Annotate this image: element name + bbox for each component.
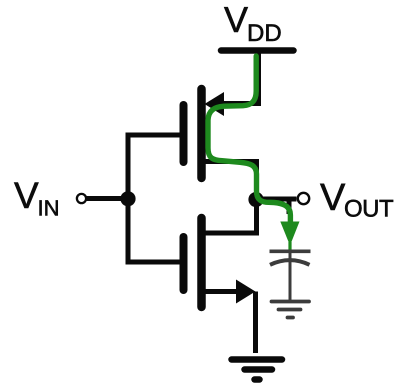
transistor M1 (PMOS) drain wire [203,162,257,198]
transistor M2 (NMOS) source arrow [236,280,256,304]
wire VIN gate net [87,196,129,201]
svg-text:V: V [320,177,346,219]
ground (gray, capacitor) [272,302,310,318]
transistor M1 (PMOS) channel bar [197,89,206,178]
capacitor CL lead [289,250,292,301]
wire VDD to PMOS source [223,51,259,104]
label VIN [14,175,60,221]
current flow path (green) [208,56,290,224]
current flow arrowhead (green) [280,222,299,246]
transistor M2 (NMOS) gate plate [180,237,188,290]
transistor M1 (PMOS) gate plate [180,105,188,162]
VDD supply bar [221,47,294,54]
transistor M2 (NMOS) channel bar [197,218,206,307]
node VIN junction dot [120,191,135,206]
wire VOUT to capacitor stub [287,200,292,214]
capacitor CL curved plate [270,260,310,265]
svg-text:IN: IN [38,196,60,221]
svg-text:OUT: OUT [344,196,394,223]
terminal VIN open circle [77,194,86,203]
transistor M2 (NMOS) source wire [203,289,238,294]
transistor M2 (NMOS) drain wire [203,197,257,233]
label VDD [224,0,282,47]
transistor M1 (PMOS) source arrow [205,92,225,116]
svg-text:DD: DD [247,20,282,47]
node VOUT wire [256,197,297,202]
node VOUT junction dot [248,192,263,207]
label VOUT [320,177,394,223]
wire NMOS source to ground [253,292,258,354]
svg-text:V: V [14,175,39,216]
svg-text:V: V [224,0,248,40]
ground (black) [232,360,283,380]
terminal VOUT open circle [298,193,309,204]
current flow arrow tail (green) [288,242,291,250]
capacitor CL top plate [270,250,311,254]
